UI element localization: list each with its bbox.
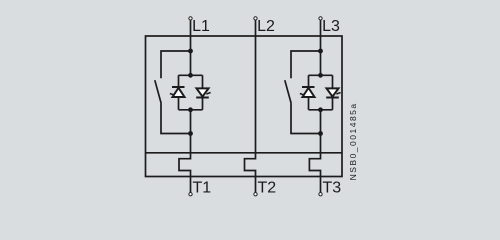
svg-text:NSB0_001485a: NSB0_001485a (348, 102, 358, 180)
wire L3 lead-in (320, 20, 322, 75)
enclosure box (146, 36, 343, 177)
contact K1 blade (155, 80, 161, 103)
svg-text:L2: L2 (257, 18, 275, 35)
thyristor block frame phase 1 (179, 75, 203, 110)
thyristor V3 (phase 3, conducting up) (300, 87, 315, 97)
svg-text:T3: T3 (323, 180, 342, 197)
wire phase 1 output with jog (179, 110, 191, 193)
measurement band divider (146, 152, 343, 154)
thyristor V2 (phase 1, conducting down) (196, 88, 210, 97)
wire bypass branch phase 3 (291, 51, 321, 78)
terminal L1 (189, 17, 192, 20)
svg-text:L3: L3 (322, 18, 340, 35)
wire phase 3 output with jog (309, 110, 320, 193)
junction dots phase 1 (188, 49, 193, 136)
junction dots phase 3 (318, 49, 323, 136)
wire L1 lead-in (190, 20, 192, 75)
terminal T1 (189, 193, 192, 196)
svg-text:T1: T1 (193, 180, 212, 197)
wire bypass return phase 1 (161, 104, 191, 134)
terminal L3 (319, 17, 322, 20)
wire bypass return phase 3 (291, 104, 321, 134)
svg-text:T2: T2 (258, 180, 277, 197)
thyristor V4 (phase 3, conducting down) (326, 88, 340, 97)
terminal L2 (254, 17, 257, 20)
thyristor V1 (phase 1, conducting up) (170, 87, 185, 97)
wire L2 straight phase (245, 20, 256, 192)
terminal T3 (319, 193, 322, 196)
wire bypass branch phase 1 (161, 51, 191, 78)
svg-text:L1: L1 (192, 18, 210, 35)
terminal T2 (254, 193, 257, 196)
thyristor block frame phase 3 (309, 75, 333, 110)
contact K2 blade (285, 80, 291, 103)
